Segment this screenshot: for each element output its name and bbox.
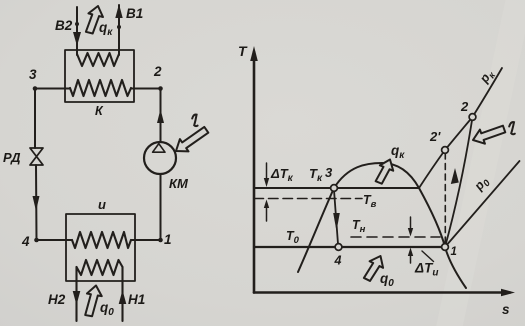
svg-text:Т: Т: [238, 43, 248, 59]
label l script (left): [192, 114, 197, 126]
svg-text:1: 1: [451, 246, 457, 258]
dot on B1 pipe: [117, 25, 121, 29]
compressor KM circle: [144, 142, 176, 174]
svg-text:4: 4: [334, 254, 342, 268]
dashed isentrope 1 to 2': [444, 154, 446, 243]
arrowhead compressor to node2 up: [157, 109, 164, 123]
point 2' circle: [442, 147, 449, 154]
wire compressor to node2: [160, 89, 162, 143]
expansion valve RD: [30, 148, 43, 165]
pipe H2 (left, down): [75, 267, 77, 321]
hollow arrow l (T-s, points left at compression line): [470, 122, 506, 147]
wire node1 up to compressor: [160, 174, 162, 240]
svg-text:и: и: [98, 197, 106, 212]
scan light streak: [427, 0, 525, 326]
svg-text:К: К: [95, 104, 104, 118]
arrowhead H2 down: [73, 291, 81, 305]
dot on B2 pipe: [75, 22, 79, 26]
dT_i dim lower shaft: [410, 254, 412, 263]
pipe B2 (inlet, left): [76, 7, 78, 55]
dT_k dim upper shaft: [266, 163, 268, 181]
node 4 dot: [34, 238, 39, 243]
dT_i down arrowhead: [408, 228, 413, 237]
s axis arrowhead: [501, 289, 515, 297]
arrowhead B1 up: [115, 4, 122, 18]
wire node4 to evaporator: [37, 239, 73, 241]
arrowhead H1 up: [119, 290, 127, 304]
condenser water coil (top zigzag): [77, 53, 119, 66]
evaporator refrigerant coil (top zigzag) on line 4-1: [72, 232, 131, 248]
s axis: [254, 291, 510, 294]
dT_i leader line: [422, 251, 434, 262]
dT_i dim upper shaft: [410, 217, 412, 230]
svg-text:3: 3: [325, 165, 333, 180]
evaporator brine coil (bottom zigzag): [77, 260, 123, 275]
T_0 evaporation line through 4 to 1: [254, 246, 445, 248]
hollow arrow q_0 (T-s): [362, 253, 387, 284]
svg-text:РД: РД: [3, 150, 21, 165]
evaporator I box: [66, 214, 135, 281]
hollow arrow q_0 (left schematic): [83, 284, 103, 317]
wire node3 to condenser: [35, 88, 70, 90]
svg-text:Н2: Н2: [48, 292, 66, 307]
arrowhead on 3-4 line (down): [333, 213, 340, 231]
label p_0 rotated: [471, 173, 493, 195]
wire node3 down to valve: [34, 89, 36, 149]
dashed T_n line: [351, 236, 440, 238]
point 1 circle: [442, 244, 449, 251]
state point circles: [331, 114, 476, 251]
dT_i up arrowhead: [408, 248, 413, 257]
condenser refrigerant coil (bottom zigzag) on line 3-2: [70, 80, 131, 96]
line 3 to 4 (throttling): [334, 190, 338, 244]
svg-text:1: 1: [164, 232, 172, 247]
wire evaporator to node1: [131, 239, 161, 241]
T_k condensation line 3 to dome: [254, 187, 419, 189]
point 2 circle: [469, 114, 476, 121]
node 2 dot: [158, 86, 163, 91]
svg-text:2: 2: [460, 99, 469, 114]
hollow arrow l (left schematic, points down-left at compressor): [172, 124, 211, 158]
dT_k dim lower shaft: [266, 204, 268, 221]
svg-text:2: 2: [153, 64, 162, 79]
label l script (T-s): [509, 122, 515, 134]
saturation dome: [298, 163, 466, 288]
hollow arrow q_k (T-s): [374, 157, 397, 186]
dT_k down arrowhead: [264, 178, 269, 187]
svg-text:В2: В2: [55, 18, 73, 33]
label p_k rotated: [476, 66, 498, 88]
p_0 isobar from 1: [445, 161, 520, 247]
wire condenser to node2: [131, 88, 161, 90]
arrowhead on compression line (up): [451, 168, 459, 184]
hollow arrow q_k (left schematic): [84, 4, 105, 35]
condenser K box: [65, 50, 134, 102]
svg-text:КМ: КМ: [169, 176, 189, 191]
dashed T_v line: [254, 198, 362, 200]
pipe B1 (outlet, right): [118, 5, 120, 55]
arrowhead B2 down: [73, 32, 81, 46]
T axis: [253, 52, 256, 293]
compressor triangle: [153, 144, 165, 153]
arrowhead valve line down: [33, 196, 40, 211]
svg-text:s: s: [502, 302, 510, 317]
T axis arrowhead: [250, 46, 258, 61]
node 1 dot: [158, 238, 163, 243]
pipe H1 (right, up): [121, 267, 123, 321]
compression line 1 to 2: [445, 117, 473, 247]
svg-text:3: 3: [29, 67, 37, 82]
svg-text:В1: В1: [126, 6, 143, 21]
svg-text:Н1: Н1: [128, 292, 145, 307]
wire valve to node4: [35, 165, 38, 240]
point 3 circle: [331, 185, 338, 192]
svg-text:4: 4: [21, 234, 30, 249]
svg-text:2': 2': [429, 129, 441, 144]
dT_k up arrowhead: [264, 200, 269, 209]
p_k isobar through 2' and 2: [419, 68, 502, 188]
node 3 dot: [33, 86, 38, 91]
point 4 circle: [335, 244, 342, 251]
